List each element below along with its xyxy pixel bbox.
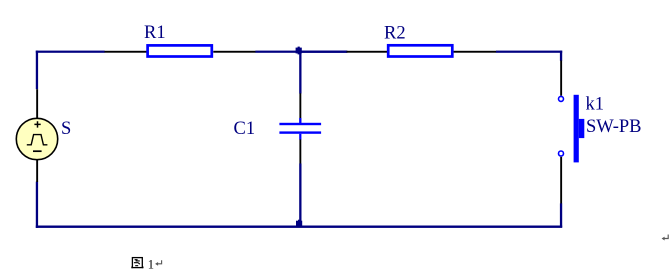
resistor R2 [347, 45, 497, 56]
resistor R1 [105, 45, 256, 56]
switch k1 SW-PB [559, 61, 585, 204]
wire top-left horizontal (net from source to R1) [36, 51, 105, 53]
label C1 [234, 119, 256, 139]
label k1 [586, 94, 605, 114]
wire right vertical lower (switch to bottom wire) [560, 203, 562, 227]
wire left vertical (source to top-left corner) [36, 51, 38, 90]
node B junction dot (capacitor to bottom wire) [296, 220, 302, 228]
wire R1 to node A [255, 51, 347, 53]
node A junction dot [296, 47, 302, 55]
label S [61, 119, 71, 139]
wire node A down to capacitor [299, 51, 301, 94]
capacitor C1 [279, 93, 321, 163]
wire bottom horizontal [36, 226, 562, 228]
wire right vertical upper (corner to switch) [560, 51, 562, 61]
caption 图 1 (hand-drawn CJK glyph) [132, 258, 143, 269]
wire R2 to top-right corner [496, 51, 562, 53]
wire left vertical lower (source to bottom-left corner) [36, 182, 38, 228]
svg-text:R2: R2 [384, 23, 406, 43]
svg-text:S: S [61, 119, 71, 139]
caption number 1 [148, 257, 154, 270]
paragraph mark after caption [155, 260, 162, 266]
pulse source S [16, 89, 57, 182]
wire node A to R2 [299, 51, 347, 53]
svg-text:SW-PB: SW-PB [586, 117, 642, 137]
paragraph mark bottom-right [662, 235, 669, 241]
label R1 [144, 23, 166, 43]
svg-text:R1: R1 [144, 23, 166, 43]
svg-text:1: 1 [148, 257, 154, 270]
label SW-PB [586, 117, 642, 137]
svg-text:C1: C1 [234, 119, 256, 139]
svg-text:k1: k1 [586, 94, 605, 114]
label R2 [384, 23, 406, 43]
wire capacitor to bottom wire [299, 164, 301, 228]
